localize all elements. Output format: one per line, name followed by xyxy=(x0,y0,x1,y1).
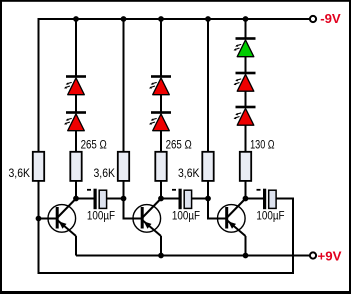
svg-text:3,6K: 3,6K xyxy=(94,168,116,180)
svg-text:3,6K: 3,6K xyxy=(178,168,200,180)
svg-text:-9V: -9V xyxy=(320,11,341,26)
LED D7 xyxy=(236,106,256,109)
svg-text:3,6K: 3,6K xyxy=(9,168,31,180)
wire: emitter of Q2 down to +9V rail xyxy=(160,236,162,256)
LED D4 xyxy=(151,111,171,114)
wire: capacitor C1 output lead xyxy=(106,198,123,200)
emitter arrow of Q2 (PNP, points to base) xyxy=(144,221,152,228)
wire: capacitor C3 output lead xyxy=(275,198,278,200)
wire: emitter of Q1 down to +9V rail xyxy=(75,236,77,256)
svg-text:100µF: 100µF xyxy=(172,208,200,222)
resistor R1 (3,6K) xyxy=(33,152,44,181)
wire: emitter lead of Q2 xyxy=(143,220,162,236)
wire: feedback right vertical up to C3 output xyxy=(292,199,294,274)
wire: capacitor C2 output lead xyxy=(191,198,208,200)
junction dots on capacitor row xyxy=(73,196,79,202)
wire: base resistor R3 to cap node xyxy=(123,181,125,199)
junction dots on top rail xyxy=(73,16,79,22)
resistor R6 (130 Ω) xyxy=(240,152,251,181)
wire: cap node down to base of Q3 xyxy=(207,199,209,220)
wire: collector node to capacitor C1 xyxy=(76,198,94,200)
wire: last LED to collector resistor stage 1 xyxy=(75,131,77,152)
transistor Q1 (PNP) xyxy=(48,205,76,233)
svg-text:100µF: 100µF xyxy=(256,208,284,222)
wire: emitter of Q3 down to +9V rail xyxy=(245,236,247,256)
LED D1 xyxy=(66,75,86,78)
svg-text:130 Ω: 130 Ω xyxy=(250,140,275,152)
wire: C3 right plate to feedback vertical xyxy=(276,198,294,200)
transistor Q3 (PNP) xyxy=(218,205,246,233)
terminal -9V xyxy=(310,16,316,22)
svg-text:265 Ω: 265 Ω xyxy=(166,140,193,152)
wire: base lead of Q3 xyxy=(208,218,226,220)
wire: last LED to collector resistor stage 3 xyxy=(245,125,247,152)
LED D5 xyxy=(236,37,256,40)
wire: collector lead of Q3 xyxy=(227,199,246,218)
svg-text:100µF: 100µF xyxy=(87,208,115,222)
LED D6 xyxy=(236,72,256,75)
svg-text:265 Ω: 265 Ω xyxy=(81,140,108,152)
LED D2 xyxy=(66,111,86,114)
svg-text:+9V: +9V xyxy=(318,248,342,263)
capacitor C3 (100µF electrolytic) xyxy=(263,189,266,210)
resistor R5 (3,6K) xyxy=(202,152,213,181)
wire: bottom +9V rail xyxy=(76,255,309,257)
wire: left vertical from top rail to R1 xyxy=(38,18,40,152)
resistor R4 (265 Ω) xyxy=(155,152,166,181)
wire: collector node to capacitor C3 xyxy=(246,198,264,200)
resistor R2 (265 Ω) xyxy=(70,152,81,181)
transistor Q2 (PNP) xyxy=(133,205,161,233)
emitter arrow of Q1 (PNP, points to base) xyxy=(59,221,67,228)
wire: base lead of Q1 xyxy=(39,218,57,220)
wire: base lead of Q2 xyxy=(124,218,142,220)
wire: between LEDs stage 3 xyxy=(245,91,247,107)
wire: rail to base resistor R5 xyxy=(207,19,209,152)
wire: collector column stage 2, rail to first LED xyxy=(160,19,162,77)
emitter arrow of Q3 (PNP, points to base) xyxy=(228,221,236,228)
wire: emitter lead of Q3 xyxy=(227,220,246,236)
wire: between LEDs stage 1 xyxy=(75,95,77,113)
wire: collector resistor to collector node stage 3 xyxy=(245,181,247,199)
wire: top -9V rail xyxy=(39,18,310,20)
wire: base resistor R5 to cap node xyxy=(207,181,209,199)
wire: rail to base resistor R3 xyxy=(123,19,125,152)
wire: collector column stage 3, rail to first LED xyxy=(245,19,247,39)
wire: feedback bottom run xyxy=(38,272,295,274)
junction dots on +9V rail xyxy=(158,253,164,259)
wire: last LED to collector resistor stage 2 xyxy=(160,131,162,152)
wire: between LEDs stage 3 xyxy=(245,57,247,74)
LED D3 xyxy=(151,75,171,78)
wire: collector node to capacitor C2 xyxy=(161,198,179,200)
capacitor C2 (100µF electrolytic) xyxy=(179,189,182,210)
junction dot: base node of Q1 xyxy=(36,216,42,222)
wire: collector lead of Q2 xyxy=(143,199,162,218)
resistor R3 (3,6K) xyxy=(118,152,129,181)
wire: collector lead of Q1 xyxy=(58,199,77,218)
wire: R1 bottom to base node of Q1 and down to feedback xyxy=(38,181,40,273)
wire: cap node down to base of Q2 xyxy=(123,199,125,220)
terminal +9V xyxy=(310,252,316,258)
capacitor C1 (100µF electrolytic) xyxy=(94,189,97,210)
wire: collector resistor to collector node stage 2 xyxy=(160,181,162,199)
wire: between LEDs stage 2 xyxy=(160,95,162,113)
wire: emitter lead of Q1 xyxy=(58,220,77,236)
wire: collector resistor to collector node stage 1 xyxy=(75,181,77,199)
wire: collector column stage 1, rail to first LED xyxy=(75,19,77,77)
